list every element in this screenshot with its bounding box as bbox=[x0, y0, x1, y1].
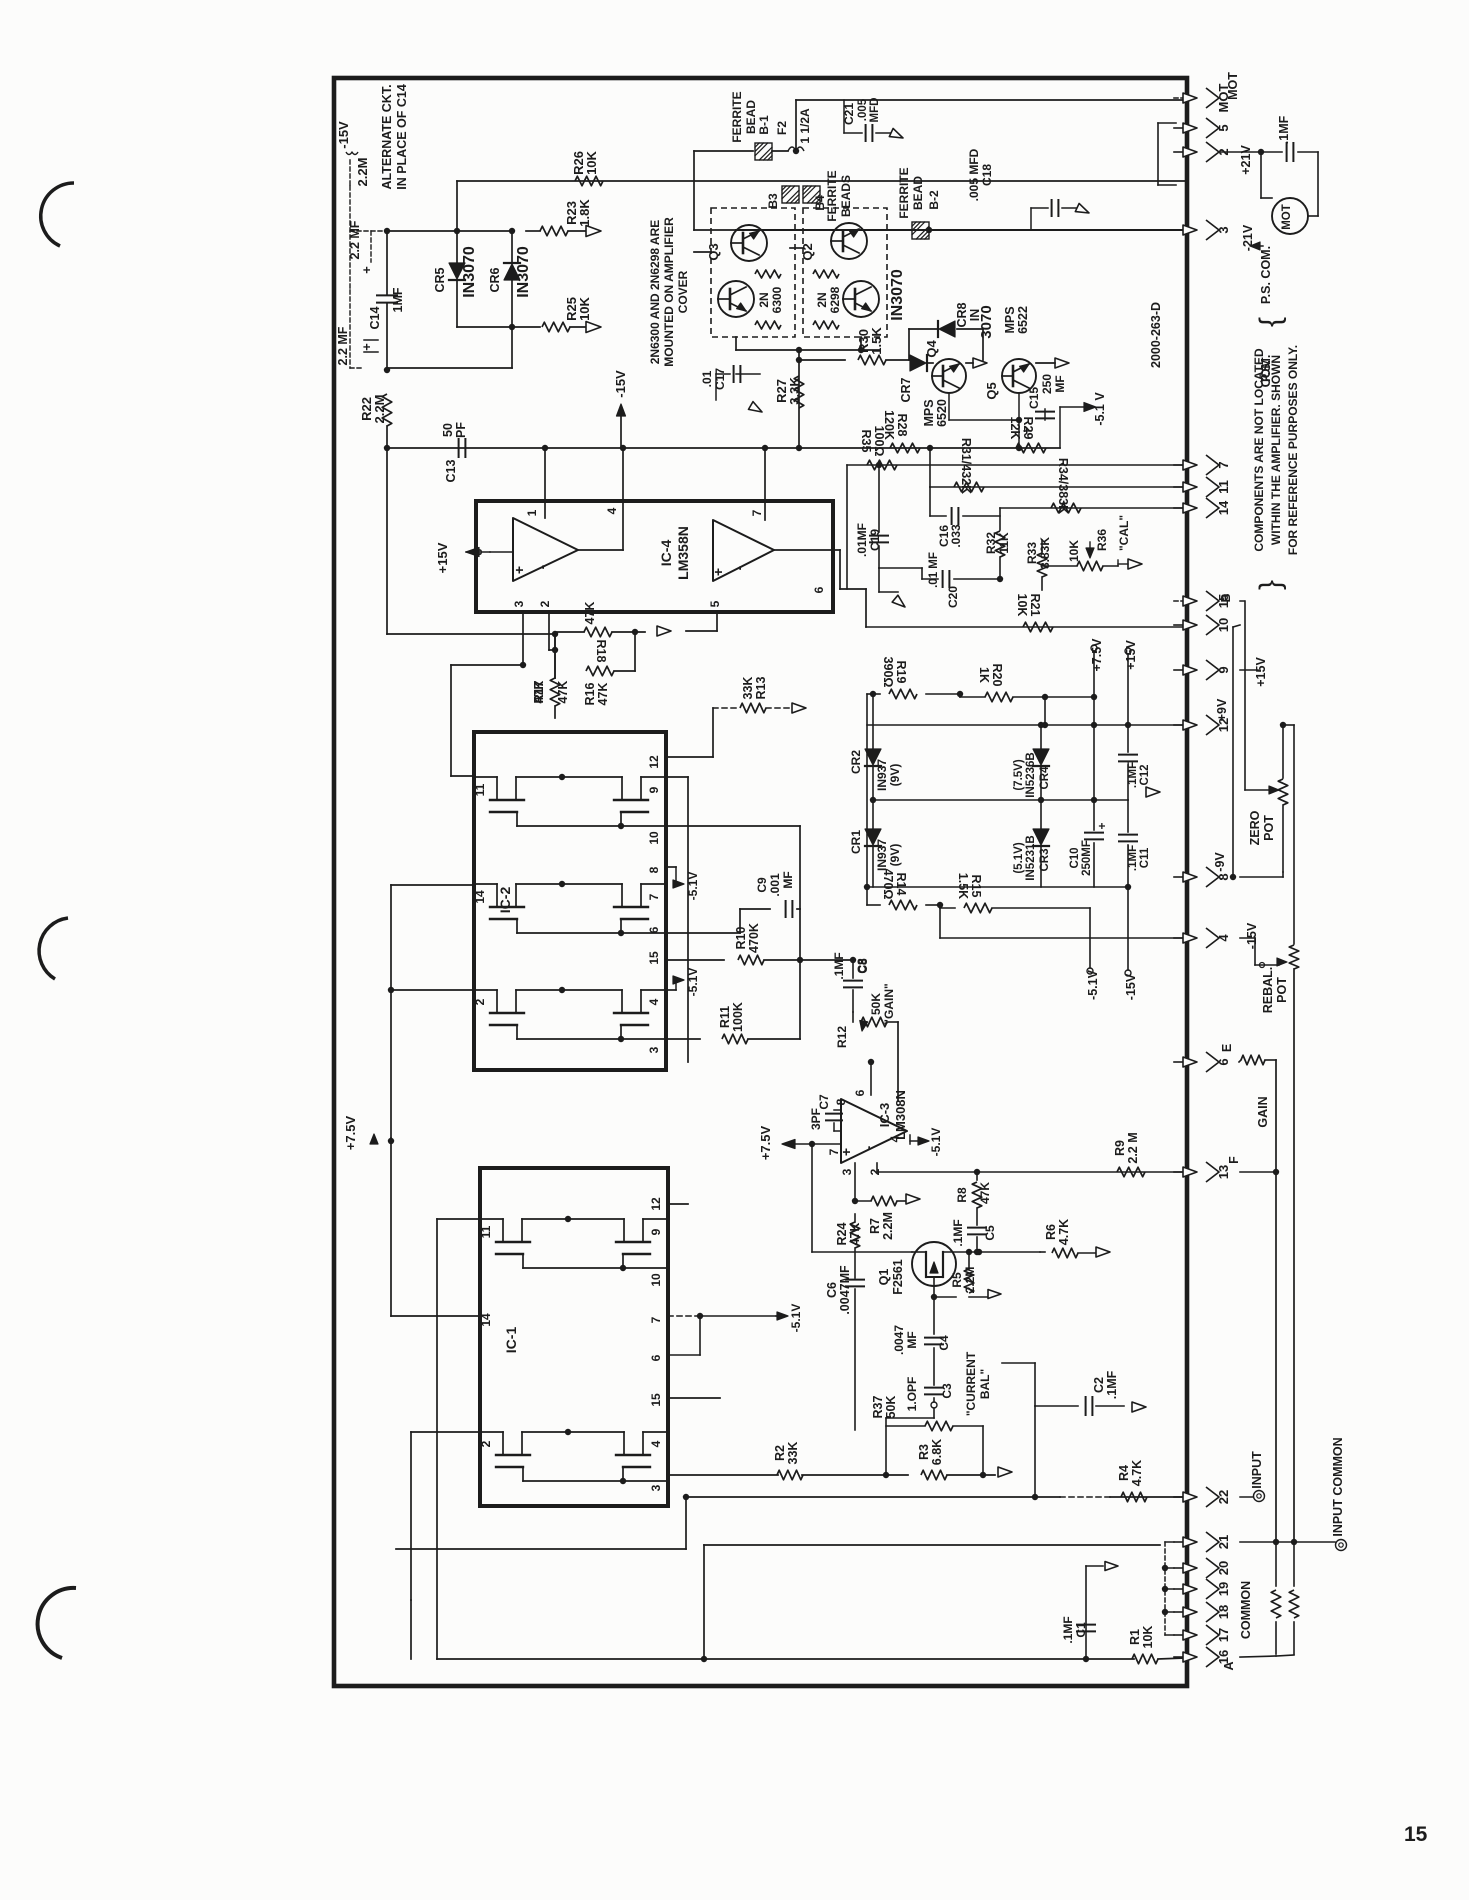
svg-text:C7: C7 bbox=[817, 1094, 831, 1110]
svg-text:BEAD: BEAD bbox=[744, 100, 758, 134]
svg-text:-: - bbox=[860, 1145, 876, 1150]
svg-text:50K: 50K bbox=[884, 1396, 898, 1419]
svg-text:R34/383K: R34/383K bbox=[1056, 458, 1070, 514]
svg-text:10K: 10K bbox=[1141, 1626, 1155, 1649]
svg-text:C15: C15 bbox=[1027, 387, 1041, 409]
svg-text:33K: 33K bbox=[741, 677, 755, 700]
svg-text:2000-263-D: 2000-263-D bbox=[1149, 302, 1163, 368]
svg-text:1.OPF: 1.OPF bbox=[905, 1377, 919, 1412]
svg-text:+15V: +15V bbox=[1254, 657, 1268, 687]
svg-text:-9V: -9V bbox=[1213, 852, 1227, 872]
svg-text:LM308N: LM308N bbox=[893, 1090, 908, 1140]
svg-text:REBAL.: REBAL. bbox=[1261, 967, 1275, 1014]
svg-text:}: } bbox=[1254, 580, 1287, 590]
svg-text:-15V: -15V bbox=[613, 370, 628, 398]
svg-text:COVER: COVER bbox=[676, 270, 690, 313]
svg-text:4: 4 bbox=[1216, 934, 1231, 942]
svg-text:470Ω: 470Ω bbox=[881, 869, 895, 900]
svg-text:3: 3 bbox=[840, 1168, 854, 1175]
svg-text:+: + bbox=[511, 566, 527, 574]
svg-text:2N: 2N bbox=[757, 292, 771, 307]
svg-text:CR7: CR7 bbox=[899, 377, 913, 402]
svg-text:R13: R13 bbox=[754, 676, 768, 699]
svg-text:1.5K: 1.5K bbox=[869, 327, 884, 355]
svg-text:.005 MFD: .005 MFD bbox=[967, 148, 981, 201]
svg-text:2N6300 AND 2N6298 ARE: 2N6300 AND 2N6298 ARE bbox=[648, 220, 662, 365]
svg-text:6520: 6520 bbox=[935, 399, 949, 427]
svg-text:22: 22 bbox=[1216, 1490, 1231, 1504]
svg-text:CR8: CR8 bbox=[955, 302, 969, 327]
svg-text:10: 10 bbox=[649, 1273, 663, 1287]
svg-text:5: 5 bbox=[1216, 124, 1231, 131]
svg-text:1.5K: 1.5K bbox=[956, 873, 970, 899]
svg-text:IN937: IN937 bbox=[875, 759, 889, 791]
svg-text:WITHIN THE AMPLIFIER. SHOWN: WITHIN THE AMPLIFIER. SHOWN bbox=[1269, 355, 1283, 545]
svg-text:IN3070: IN3070 bbox=[461, 246, 478, 298]
svg-text:5: 5 bbox=[708, 600, 722, 607]
svg-text:C14: C14 bbox=[368, 306, 382, 329]
svg-text:.0047: .0047 bbox=[892, 1325, 906, 1355]
svg-text:.1MF: .1MF bbox=[1105, 1370, 1119, 1399]
svg-text:.01MF: .01MF bbox=[855, 523, 869, 557]
svg-text:FERRITE: FERRITE bbox=[897, 167, 911, 218]
svg-text:POT: POT bbox=[1262, 815, 1276, 841]
svg-text:50: 50 bbox=[441, 423, 455, 437]
svg-text:+: + bbox=[359, 343, 374, 351]
svg-text:R8: R8 bbox=[955, 1187, 969, 1203]
svg-text:2.2 M: 2.2 M bbox=[1126, 1132, 1140, 1163]
svg-text:6298: 6298 bbox=[828, 286, 842, 313]
svg-text:MF: MF bbox=[781, 871, 795, 888]
svg-text:C18: C18 bbox=[980, 164, 994, 186]
svg-text:C11: C11 bbox=[1139, 847, 1151, 868]
svg-text:POT: POT bbox=[1275, 977, 1289, 1003]
svg-text:(9V): (9V) bbox=[888, 764, 902, 787]
svg-text:3.83K: 3.83K bbox=[1038, 537, 1052, 569]
svg-text:R33: R33 bbox=[1025, 542, 1039, 564]
svg-text:47K: 47K bbox=[556, 681, 570, 704]
svg-text:15: 15 bbox=[647, 951, 661, 965]
svg-text:R4: R4 bbox=[1117, 1465, 1131, 1481]
svg-text:FERRITE: FERRITE bbox=[730, 91, 744, 142]
svg-text:2.2 MF: 2.2 MF bbox=[336, 326, 350, 365]
svg-text:47K: 47K bbox=[596, 683, 610, 706]
svg-text:R9: R9 bbox=[1113, 1140, 1127, 1156]
svg-text:6: 6 bbox=[1216, 1058, 1231, 1065]
svg-text:1K: 1K bbox=[977, 667, 991, 683]
svg-text:7: 7 bbox=[647, 893, 661, 900]
svg-text:2: 2 bbox=[538, 600, 552, 607]
svg-text:-15V: -15V bbox=[336, 121, 351, 149]
svg-text:LM358N: LM358N bbox=[675, 526, 691, 580]
svg-text:F: F bbox=[1227, 1156, 1241, 1164]
svg-text:7: 7 bbox=[1216, 461, 1231, 468]
svg-text:-: - bbox=[731, 565, 747, 570]
svg-text:4: 4 bbox=[647, 998, 661, 1005]
svg-text:47K: 47K bbox=[978, 1182, 992, 1204]
svg-text:C5: C5 bbox=[983, 1225, 997, 1241]
svg-text:IC-2: IC-2 bbox=[497, 887, 513, 914]
svg-text:R28: R28 bbox=[895, 414, 909, 437]
svg-text:R10: R10 bbox=[734, 926, 748, 949]
svg-text:.1MF: .1MF bbox=[1277, 115, 1291, 144]
svg-text:BEADS: BEADS bbox=[839, 175, 853, 217]
svg-text:7: 7 bbox=[750, 509, 764, 516]
svg-text:C8: C8 bbox=[855, 958, 869, 974]
svg-text:33K: 33K bbox=[786, 1442, 800, 1465]
svg-text:INPUT: INPUT bbox=[1250, 1451, 1264, 1489]
svg-text:Q4: Q4 bbox=[924, 340, 939, 358]
svg-text:C10: C10 bbox=[1069, 847, 1081, 868]
svg-text:COMPONENTS ARE NOT LOCATED: COMPONENTS ARE NOT LOCATED bbox=[1252, 348, 1266, 552]
svg-text:GAIN: GAIN bbox=[1256, 1096, 1270, 1127]
svg-text:C19: C19 bbox=[868, 529, 882, 551]
svg-text:19: 19 bbox=[1216, 1582, 1231, 1596]
svg-text:3: 3 bbox=[1216, 226, 1231, 233]
svg-text:R35: R35 bbox=[859, 430, 873, 453]
svg-text:+: + bbox=[1095, 822, 1109, 829]
svg-text:MPS: MPS bbox=[1003, 306, 1017, 333]
svg-text:C6: C6 bbox=[825, 1282, 839, 1298]
svg-text:IC-3: IC-3 bbox=[877, 1103, 892, 1128]
svg-text:(5.1V): (5.1V) bbox=[1013, 842, 1025, 873]
svg-text:(7.5V): (7.5V) bbox=[1013, 759, 1025, 790]
svg-text:IC-4: IC-4 bbox=[658, 540, 674, 567]
svg-text:21: 21 bbox=[1216, 1535, 1231, 1549]
svg-text:15: 15 bbox=[1404, 1823, 1428, 1846]
svg-text:1: 1 bbox=[525, 509, 539, 516]
svg-text:47K: 47K bbox=[583, 602, 597, 625]
svg-text:.005: .005 bbox=[857, 98, 869, 121]
svg-text:.001: .001 bbox=[768, 873, 782, 897]
svg-text:9: 9 bbox=[647, 786, 661, 793]
svg-text:1.8K: 1.8K bbox=[577, 199, 592, 227]
svg-text:11: 11 bbox=[473, 783, 487, 796]
svg-text:R16: R16 bbox=[583, 682, 597, 705]
svg-text:2.2 MF: 2.2 MF bbox=[348, 220, 362, 259]
svg-text:MOT: MOT bbox=[1226, 72, 1240, 100]
svg-text:20: 20 bbox=[1216, 1561, 1231, 1575]
svg-text:8: 8 bbox=[1216, 873, 1231, 880]
svg-text:R18: R18 bbox=[594, 640, 608, 663]
svg-text:6: 6 bbox=[647, 926, 661, 933]
svg-text:C1: C1 bbox=[1074, 1622, 1088, 1638]
svg-text:IN5231B: IN5231B bbox=[1025, 835, 1037, 880]
svg-text:MF: MF bbox=[1053, 375, 1067, 392]
svg-text:7: 7 bbox=[649, 1316, 663, 1323]
svg-text:-5.1 V: -5.1 V bbox=[1093, 392, 1107, 426]
svg-text:ALTERNATE CKT.: ALTERNATE CKT. bbox=[380, 84, 394, 189]
svg-text:IC-1: IC-1 bbox=[503, 1327, 519, 1354]
svg-text:IN3070: IN3070 bbox=[515, 246, 532, 298]
svg-text:R1: R1 bbox=[1128, 1629, 1142, 1645]
svg-text:"GAIN": "GAIN" bbox=[882, 983, 896, 1024]
svg-text:+21V: +21V bbox=[1239, 145, 1253, 175]
svg-text:50K: 50K bbox=[869, 993, 883, 1015]
svg-text:R11: R11 bbox=[718, 1006, 732, 1028]
svg-text:BAL": BAL" bbox=[978, 1369, 992, 1399]
svg-text:11K: 11K bbox=[997, 532, 1011, 554]
svg-text:+: + bbox=[1019, 427, 1034, 435]
svg-text:470K: 470K bbox=[747, 923, 761, 953]
svg-text:6300: 6300 bbox=[770, 286, 784, 313]
svg-text:F2561: F2561 bbox=[891, 1259, 905, 1294]
svg-text:ZERO: ZERO bbox=[1248, 810, 1262, 845]
svg-text:1MF: 1MF bbox=[391, 287, 405, 312]
svg-text:6.8K: 6.8K bbox=[930, 1439, 944, 1465]
svg-text:E: E bbox=[1220, 1044, 1234, 1052]
svg-text:C9: C9 bbox=[755, 877, 769, 893]
svg-text:2.2M: 2.2M bbox=[355, 158, 370, 187]
svg-text:.01 MF: .01 MF bbox=[928, 552, 940, 588]
svg-text:-: - bbox=[534, 564, 550, 569]
svg-text:+: + bbox=[710, 568, 726, 576]
svg-text:10: 10 bbox=[1216, 618, 1231, 632]
svg-text:10K: 10K bbox=[1067, 540, 1081, 562]
svg-text:14: 14 bbox=[479, 1313, 493, 1327]
svg-text:3: 3 bbox=[647, 1046, 661, 1053]
svg-text:-5.1V: -5.1V bbox=[929, 1128, 943, 1157]
svg-text:C21: C21 bbox=[842, 103, 856, 125]
svg-text:3070: 3070 bbox=[978, 305, 995, 338]
svg-text:6: 6 bbox=[812, 586, 826, 593]
svg-text:"CAL": "CAL" bbox=[1117, 515, 1131, 551]
svg-text:R3: R3 bbox=[917, 1444, 931, 1460]
svg-text:4: 4 bbox=[605, 507, 619, 514]
svg-text:R5: R5 bbox=[950, 1272, 964, 1288]
svg-text:R32: R32 bbox=[984, 532, 998, 554]
svg-text:+9V: +9V bbox=[1215, 698, 1229, 721]
svg-text:.1MF: .1MF bbox=[1127, 762, 1139, 788]
svg-text:10K: 10K bbox=[577, 296, 592, 320]
svg-text:8: 8 bbox=[834, 1098, 848, 1105]
svg-text:R15: R15 bbox=[969, 875, 983, 898]
svg-text:6: 6 bbox=[853, 1089, 867, 1096]
svg-text:.033: .033 bbox=[949, 524, 963, 548]
svg-text:2: 2 bbox=[479, 1440, 493, 1447]
svg-text:2.2M: 2.2M bbox=[963, 1267, 977, 1294]
svg-text:-5.1V: -5.1V bbox=[686, 968, 700, 997]
svg-text:10K: 10K bbox=[1015, 594, 1029, 617]
svg-text:B-2: B-2 bbox=[927, 190, 941, 210]
svg-text:2: 2 bbox=[473, 998, 487, 1005]
svg-text:+7.5V: +7.5V bbox=[1090, 638, 1104, 672]
svg-text:C13: C13 bbox=[444, 459, 458, 482]
svg-text:2N: 2N bbox=[815, 292, 829, 307]
svg-text:(9V): (9V) bbox=[888, 844, 902, 867]
svg-text:-15V: -15V bbox=[1124, 973, 1138, 1000]
svg-text:7: 7 bbox=[827, 1148, 841, 1155]
svg-text:MF: MF bbox=[905, 1331, 919, 1348]
svg-text:3: 3 bbox=[649, 1484, 663, 1491]
svg-text:IN5236B: IN5236B bbox=[1025, 752, 1037, 797]
svg-text:R7: R7 bbox=[868, 1218, 882, 1234]
svg-text:COMMON: COMMON bbox=[1239, 1581, 1253, 1639]
svg-text:-15V: -15V bbox=[1245, 922, 1259, 949]
svg-text:.1MF: .1MF bbox=[832, 952, 846, 979]
svg-text:IN937: IN937 bbox=[875, 839, 889, 871]
svg-text:3.3K: 3.3K bbox=[787, 377, 802, 405]
svg-text:INPUT COMMON: INPUT COMMON bbox=[1331, 1437, 1345, 1536]
svg-text:F2: F2 bbox=[775, 121, 789, 135]
svg-text:2.2M: 2.2M bbox=[372, 395, 387, 424]
svg-text:R19: R19 bbox=[894, 661, 908, 684]
svg-text:R14: R14 bbox=[894, 873, 908, 896]
svg-text:FOR REFERENCE PURPOSES ONLY.: FOR REFERENCE PURPOSES ONLY. bbox=[1286, 345, 1300, 555]
svg-text:CR6: CR6 bbox=[488, 267, 502, 292]
svg-text:Q5: Q5 bbox=[984, 382, 999, 399]
svg-text:Q2: Q2 bbox=[800, 243, 815, 260]
svg-text:CR4: CR4 bbox=[1039, 766, 1051, 790]
svg-text:C17: C17 bbox=[713, 368, 727, 390]
svg-text:R2: R2 bbox=[773, 1445, 787, 1461]
svg-text:17: 17 bbox=[1216, 1628, 1231, 1642]
svg-text:.1MF: .1MF bbox=[1061, 1616, 1075, 1643]
svg-text:.1MF: .1MF bbox=[951, 1219, 965, 1246]
svg-text:Q1: Q1 bbox=[877, 1269, 891, 1286]
svg-text:{: { bbox=[1254, 317, 1287, 327]
svg-text:R20: R20 bbox=[990, 664, 1004, 687]
svg-text:.1MF: .1MF bbox=[1127, 845, 1139, 871]
svg-text:-5.1V: -5.1V bbox=[789, 1304, 803, 1333]
svg-text:2.2M: 2.2M bbox=[881, 1212, 895, 1240]
svg-text:+: + bbox=[359, 266, 374, 274]
svg-text:C12: C12 bbox=[1139, 764, 1151, 785]
svg-text:.0047MF: .0047MF bbox=[838, 1265, 852, 1315]
svg-text:R36: R36 bbox=[1095, 529, 1109, 551]
svg-text:R31/432K: R31/432K bbox=[959, 438, 973, 494]
svg-text:MOUNTED ON AMPLIFIER: MOUNTED ON AMPLIFIER bbox=[662, 217, 676, 367]
svg-text:10K: 10K bbox=[584, 150, 599, 174]
svg-text:11: 11 bbox=[1216, 480, 1231, 494]
svg-text:R37: R37 bbox=[871, 1395, 885, 1418]
svg-text:8: 8 bbox=[647, 866, 661, 873]
svg-text:R12: R12 bbox=[835, 1026, 849, 1048]
svg-text:3PF: 3PF bbox=[809, 1108, 823, 1130]
svg-text:CR1: CR1 bbox=[849, 830, 863, 854]
svg-text:R17: R17 bbox=[532, 680, 546, 703]
svg-text:15: 15 bbox=[649, 1393, 663, 1407]
svg-text:A: A bbox=[1222, 1661, 1236, 1670]
svg-text:14: 14 bbox=[473, 890, 487, 904]
svg-text:MPS: MPS bbox=[922, 399, 936, 426]
svg-text:R21: R21 bbox=[1028, 594, 1042, 617]
svg-text:18: 18 bbox=[1216, 1605, 1231, 1619]
svg-text:CR2: CR2 bbox=[849, 750, 863, 774]
svg-text:CR5: CR5 bbox=[433, 267, 447, 292]
svg-text:10: 10 bbox=[647, 831, 661, 845]
svg-text:6522: 6522 bbox=[1016, 306, 1030, 334]
svg-text:PF: PF bbox=[454, 422, 468, 438]
svg-text:3: 3 bbox=[512, 600, 526, 607]
svg-text:R24: R24 bbox=[835, 1222, 849, 1245]
svg-text:+15V: +15V bbox=[435, 542, 450, 573]
svg-text:4: 4 bbox=[649, 1440, 663, 1447]
svg-text:12: 12 bbox=[649, 1197, 663, 1211]
svg-text:BEAD: BEAD bbox=[911, 176, 925, 210]
svg-text:-5.1V: -5.1V bbox=[1086, 969, 1100, 1000]
svg-text:CR3: CR3 bbox=[1039, 848, 1051, 871]
svg-text:4.7K: 4.7K bbox=[1057, 1219, 1071, 1245]
svg-text:14: 14 bbox=[1216, 500, 1231, 515]
svg-text:C2: C2 bbox=[1092, 1377, 1106, 1393]
svg-text:R6: R6 bbox=[1044, 1224, 1058, 1240]
svg-text:IN PLACE OF C14: IN PLACE OF C14 bbox=[395, 84, 409, 190]
svg-text:+7.5V: +7.5V bbox=[758, 1126, 773, 1161]
svg-text:-5.1V: -5.1V bbox=[686, 872, 700, 901]
svg-text:1 1/2A: 1 1/2A bbox=[798, 108, 812, 144]
svg-text:250MF: 250MF bbox=[1081, 840, 1093, 876]
svg-text:C3: C3 bbox=[940, 1383, 954, 1399]
svg-text:IN3070: IN3070 bbox=[889, 269, 906, 321]
svg-text:C20: C20 bbox=[946, 586, 960, 608]
svg-text:6: 6 bbox=[649, 1354, 663, 1361]
svg-text:47K: 47K bbox=[848, 1223, 862, 1246]
svg-text:P.S. COM.: P.S. COM. bbox=[1259, 246, 1273, 304]
svg-text:9: 9 bbox=[1216, 666, 1231, 673]
svg-text:.01: .01 bbox=[700, 370, 714, 387]
svg-text:9: 9 bbox=[649, 1228, 663, 1235]
svg-text:390Ω: 390Ω bbox=[881, 657, 895, 688]
svg-text:B: B bbox=[1219, 593, 1233, 602]
svg-text:250: 250 bbox=[1040, 374, 1054, 394]
svg-text:+7.5V: +7.5V bbox=[343, 1116, 358, 1151]
svg-text:12: 12 bbox=[647, 755, 661, 769]
svg-text:+15V: +15V bbox=[1124, 640, 1138, 670]
svg-text:MFD: MFD bbox=[869, 98, 881, 123]
svg-text:MOT: MOT bbox=[1281, 204, 1293, 230]
svg-text:11: 11 bbox=[479, 1225, 493, 1238]
svg-text:13: 13 bbox=[1216, 1165, 1231, 1179]
svg-text:100K: 100K bbox=[731, 1002, 745, 1032]
svg-text:"CURRENT: "CURRENT bbox=[964, 1351, 978, 1416]
svg-text:FERRITE: FERRITE bbox=[825, 170, 839, 221]
svg-text:B-1: B-1 bbox=[757, 115, 771, 135]
svg-text:B3: B3 bbox=[766, 193, 780, 209]
svg-text:C4: C4 bbox=[937, 1335, 951, 1351]
svg-text:100Ω: 100Ω bbox=[872, 426, 886, 457]
svg-text:4.7K: 4.7K bbox=[1130, 1460, 1144, 1486]
